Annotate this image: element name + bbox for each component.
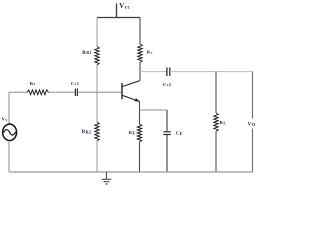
wire: output wire RL node to VO line — [216, 71, 253, 73]
svg-text:RB1: RB1 — [82, 50, 92, 56]
svg-text:RL: RL — [220, 120, 227, 125]
svg-text:RB2: RB2 — [82, 129, 92, 135]
wire: CE column upper — [166, 110, 168, 131]
wire: emitter column (branch node to RE) — [139, 110, 141, 124]
wire: collector column (Rc to collector node) — [139, 63, 141, 81]
wire: VO line lower — [252, 129, 254, 173]
wire: RB column lower (base node to RB2) — [96, 92, 98, 122]
wire: input wire to Cc1 — [49, 91, 76, 93]
transistor emitter arrow — [134, 98, 139, 101]
svg-text:VO: VO — [248, 122, 256, 128]
source Vs — [3, 124, 17, 140]
resistor RB2 — [95, 122, 99, 141]
wire: emitter column to rail — [139, 142, 141, 172]
capacitor Cc2 — [167, 67, 170, 76]
wire: input wire left segment — [9, 91, 27, 93]
wire: emitter column (emitter to branch node) — [139, 101, 141, 110]
wire: base wire Cc1 to base — [77, 91, 121, 93]
resistor RE — [137, 124, 141, 142]
ground — [102, 172, 112, 184]
wire: RL column lower — [215, 132, 217, 173]
svg-text:CE: CE — [176, 131, 183, 136]
wire: collector column (top bar to Rc) — [139, 18, 141, 45]
transistor emitter lead — [122, 95, 139, 101]
wire: Vcc stub — [116, 4, 118, 18]
svg-text:Vcc: Vcc — [119, 3, 130, 10]
wire: output wire left of Cc2 — [140, 71, 167, 73]
transistor Q1 — [122, 81, 140, 102]
transistor base bar — [121, 83, 123, 99]
wire: ground rail — [9, 171, 253, 173]
svg-text:Rs: Rs — [30, 81, 36, 86]
capacitor Cc1 — [75, 89, 77, 97]
wire: VO line upper — [252, 72, 254, 119]
wire: source left vertical lower — [8, 141, 10, 173]
svg-text:Cc1: Cc1 — [71, 81, 80, 86]
transistor collector lead — [122, 81, 140, 87]
wire: RB column middle (RB1 to base node) — [96, 65, 98, 92]
wire: RB column upper (top bar to RB1) — [96, 18, 98, 47]
svg-text:RE: RE — [129, 130, 136, 135]
wire: emitter branch to CE — [140, 109, 168, 111]
svg-text:Rc: Rc — [147, 50, 153, 55]
capacitor CE — [163, 132, 170, 135]
wire: RL column upper — [215, 72, 217, 113]
wire: source left vertical upper — [8, 92, 10, 124]
svg-text:Vs: Vs — [2, 117, 8, 122]
wire: Vcc top bar — [97, 17, 140, 19]
wire: RB column to ground rail — [96, 141, 98, 172]
wire: CE column lower — [166, 135, 168, 172]
wire: output wire Cc2 to RL node — [170, 71, 216, 73]
resistor Rc — [138, 44, 142, 63]
resistor Rs — [27, 90, 49, 95]
resistor RL — [214, 113, 218, 132]
svg-text:Cc2: Cc2 — [163, 82, 172, 87]
resistor RB1 — [95, 47, 99, 66]
